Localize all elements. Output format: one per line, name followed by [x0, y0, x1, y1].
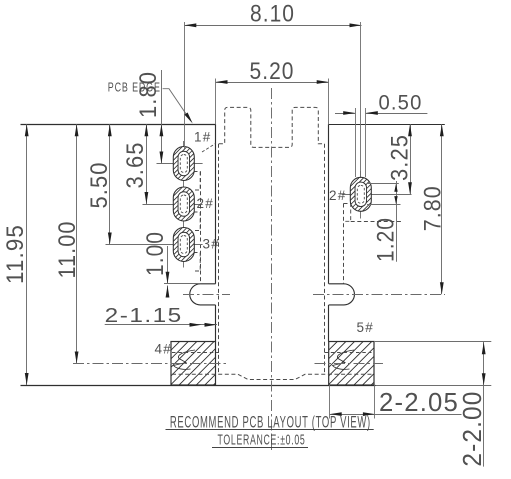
svg-text:2#: 2# [197, 196, 214, 211]
pad 1# vertical center line [183, 141, 185, 268]
svg-text:RECOMMEND PCB LAYOUT (TOP VIEW: RECOMMEND PCB LAYOUT (TOP VIEW) [170, 413, 371, 431]
dim 11.95 [26, 124, 28, 385]
svg-text:1.20: 1.20 [373, 217, 400, 262]
svg-text:5#: 5# [357, 320, 374, 335]
hidden shell edge across pad 5# (dashed) [325, 352, 372, 354]
pad 1# horizontal center line / 1.80 extension [157, 163, 203, 165]
dim 2-2.05 [330, 414, 462, 416]
hidden housing right side (dashed) [324, 144, 326, 375]
dim 3.65 [146, 124, 148, 204]
leader for 1# (dashed) [202, 144, 216, 153]
svg-text:PCB EDGE: PCB EDGE [108, 81, 161, 95]
pad 3# horizontal center line / 5.50 extension [106, 244, 203, 246]
pad 2# horizontal center line / 3.65 extension [143, 204, 203, 206]
dim 1.00 [167, 246, 169, 284]
svg-text:8.10: 8.10 [250, 1, 295, 28]
title underline [166, 429, 374, 431]
vertical center line [271, 88, 273, 450]
svg-text:2-2.05: 2-2.05 [379, 387, 459, 417]
svg-text:11.00: 11.00 [54, 221, 81, 279]
1.00 extension (step edge) [164, 283, 200, 285]
svg-text:11.95: 11.95 [2, 224, 29, 284]
dim 5.50 [109, 124, 111, 244]
PCB EDGE leader [163, 89, 191, 121]
svg-text:7.80: 7.80 [420, 185, 447, 231]
hidden contact slot rail left (dashed) [200, 172, 202, 284]
dim 8.10 [184, 25, 361, 27]
pad 4# center line [73, 363, 229, 365]
pad 4# solder squiggle [174, 350, 196, 369]
right pad 2# horizontal center line / 3.25 extension [342, 194, 412, 196]
dim 1.20 slot extension lines [367, 183, 399, 185]
right pad 2# vertical center line [360, 171, 362, 219]
PCB bottom edge line [21, 385, 376, 387]
svg-text:1#: 1# [194, 130, 211, 145]
dim 0.50 [335, 113, 355, 115]
svg-text:5.50: 5.50 [86, 162, 113, 209]
hidden housing left side (dashed) [218, 144, 220, 375]
hidden slot bottom extension right (dashed) [351, 221, 402, 223]
right bump center line / 7.80 extension [313, 294, 445, 296]
pad 5# center line [315, 363, 384, 365]
dim 2-1.15 [105, 324, 217, 326]
dim 11.00 [76, 124, 78, 363]
connector body right edge [328, 124, 330, 284]
svg-text:0.50: 0.50 [379, 92, 423, 115]
svg-text:5.20: 5.20 [250, 58, 295, 85]
PCB edge line (top reference) [21, 124, 216, 126]
dim 1.20 [396, 181, 398, 262]
hidden housing top tabs (dashed) [219, 107, 324, 147]
hidden slot at right pad 2# [344, 204, 351, 222]
svg-text:TOLERANCE:±0.05: TOLERANCE:±0.05 [218, 431, 306, 448]
dim 1.80 [161, 70, 163, 164]
dim 7.80 [441, 124, 443, 294]
pad 5# solder squiggle [333, 350, 355, 369]
tolerance underline [212, 447, 308, 449]
svg-text:3.25: 3.25 [387, 134, 414, 181]
svg-text:3.65: 3.65 [122, 142, 149, 189]
left bump center line [183, 294, 230, 296]
hidden slot at pad 2# [194, 212, 201, 231]
dim 5.20 [216, 82, 329, 84]
svg-text:1.00: 1.00 [142, 231, 169, 276]
svg-text:3#: 3# [203, 237, 220, 252]
connector body left edge [215, 124, 217, 284]
svg-text:2-2.00: 2-2.00 [457, 391, 487, 467]
svg-text:2-1.15: 2-1.15 [105, 305, 183, 327]
right locating bump (half circle) [329, 284, 355, 305]
hidden slot at pad 1# [194, 172, 201, 191]
svg-text:2#: 2# [329, 188, 346, 203]
dim 3.25 [410, 124, 412, 194]
hidden shell edge across pad 4# (dashed) [172, 352, 219, 354]
dim 2-2.00 [483, 342, 485, 467]
hidden bottom mouse-hole profile (dashed) [172, 374, 372, 379]
left locating bump (half circle) [190, 284, 216, 305]
hidden contact slot rail right (dashed) [343, 204, 345, 284]
svg-text:4#: 4# [155, 342, 172, 357]
svg-text:1.80: 1.80 [135, 71, 162, 118]
hidden slot at pad 3# [194, 253, 201, 272]
